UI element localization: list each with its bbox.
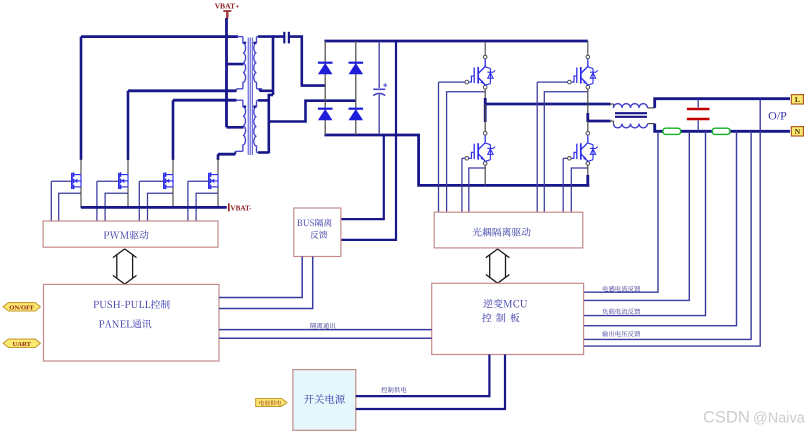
wire bridge left column	[324, 41, 326, 135]
block 开关电源	[293, 370, 356, 431]
port 电池供电	[256, 399, 287, 407]
wire controller to BUS feedback 2	[219, 257, 313, 309]
wire bridge right column	[355, 41, 357, 135]
wire cap to bridge AC1	[289, 37, 325, 86]
wire output L line	[655, 99, 790, 108]
label 电感电流反馈	[603, 286, 640, 292]
wire M2 gate	[97, 181, 119, 221]
wire Q3 collector	[484, 104, 486, 131]
transformer core	[248, 38, 252, 156]
wire M3 source sense	[148, 193, 174, 221]
wire Q3 gate	[462, 158, 465, 212]
port N terminal	[791, 127, 803, 136]
wire M2 source sense	[105, 193, 128, 221]
wire T1 secondary tap vertical	[269, 35, 273, 95]
capacitor bus C2	[373, 41, 387, 135]
diode D3	[318, 109, 333, 121]
block 逆变MCU控制板	[432, 283, 584, 354]
resistor R2	[712, 128, 730, 134]
resistor R1	[663, 128, 681, 134]
transformer T2	[236, 100, 262, 152]
wire feedback 4	[584, 131, 737, 325]
wire Q4 collector	[587, 121, 589, 131]
label 隔离通讯	[311, 323, 336, 329]
label 控制供电	[381, 387, 406, 393]
wire right leg output rail	[588, 120, 611, 123]
wire T1 secondary bottom	[260, 89, 274, 91]
svg-text:ON/OFF: ON/OFF	[9, 304, 34, 311]
igbt Q3	[465, 131, 495, 165]
mosfet M2	[119, 172, 128, 189]
wire feedback 1	[584, 131, 658, 292]
watermark	[703, 409, 805, 427]
wire M4 source	[217, 187, 219, 208]
diode D4	[349, 109, 364, 121]
power VBAT- label	[229, 203, 252, 212]
wire controller to BUS feedback 1	[219, 257, 302, 298]
wire inductor L2 out	[648, 123, 655, 125]
capacitor output C3	[687, 99, 710, 132]
svg-text:O/P: O/P	[768, 109, 787, 123]
wire M1 source	[80, 187, 82, 208]
diode D2	[349, 63, 364, 75]
wire Q1 gate	[439, 82, 466, 212]
wire Q4 gate	[563, 158, 567, 212]
port UART	[3, 339, 40, 348]
igbt Q1	[465, 55, 495, 89]
wire M1 source sense	[59, 193, 81, 221]
power VBAT+ label	[215, 2, 240, 19]
wire M4 drain riser	[217, 154, 220, 174]
label O/P	[768, 109, 787, 123]
wire right rail to inductor	[611, 121, 614, 124]
wire M1 drain to T1 primary top	[81, 35, 238, 38]
wire M3 source	[172, 187, 174, 208]
wire VBAT+ vertical to center taps	[225, 18, 228, 127]
wire VBAT- rail	[81, 206, 227, 209]
wire 控制供电	[356, 355, 490, 397]
block PUSH-PULL控制 PANEL通讯	[44, 284, 220, 361]
wire M1 drain riser	[80, 37, 83, 175]
wire Q1 emitter sense	[447, 92, 486, 212]
wire 隔离通讯 2	[219, 337, 432, 339]
wire output N line	[655, 124, 790, 132]
svg-text:VBAT-: VBAT-	[230, 204, 252, 212]
wire feedback 3	[584, 131, 706, 315]
igbt Q4	[568, 131, 598, 165]
wire M2 source	[127, 187, 129, 208]
wire M1 gate	[51, 181, 72, 221]
igbt Q2	[568, 55, 598, 89]
wire inductor L1 out	[648, 107, 655, 109]
wire Q3 emitter to bottom rail	[484, 165, 486, 185]
svg-text:CSDN: CSDN	[703, 409, 750, 427]
block 光耦隔离驱动	[434, 212, 583, 248]
wire T2 secondary top	[258, 99, 269, 102]
capacitor series C1	[284, 32, 289, 44]
svg-text:VBAT+: VBAT+	[215, 2, 240, 11]
svg-text:L: L	[795, 95, 800, 104]
wire Q2 collector	[587, 41, 589, 55]
port ON/OFF	[3, 303, 40, 312]
wire bridge top rail	[324, 40, 587, 43]
wire bridge bottom rail	[324, 135, 589, 185]
wire M2 drain to T1 primary bottom	[128, 89, 237, 91]
svg-text:N: N	[795, 127, 801, 136]
wire 隔离通讯 1	[219, 329, 432, 331]
wire Q2 emitter to mid rail	[587, 89, 589, 122]
wire T1 center tap	[227, 63, 244, 66]
wire feedback 5	[584, 131, 752, 339]
svg-text:UART: UART	[12, 341, 31, 348]
label 负载电流反馈	[602, 308, 640, 314]
wire T2 secondary bottom	[258, 151, 269, 154]
svg-text:@Naiva: @Naiva	[753, 411, 805, 427]
port L terminal	[791, 95, 803, 104]
arrow driver to MCU	[486, 249, 510, 283]
wire M3 gate	[139, 181, 164, 221]
inductor core bars	[615, 113, 647, 117]
wire Q1 emitter to mid rail	[484, 89, 486, 122]
wire Q2 gate	[537, 82, 567, 212]
wire Q1 collector	[484, 41, 486, 55]
wire BUS- sense	[341, 135, 384, 219]
arrow PWM to controller	[113, 249, 137, 284]
inductor L2	[614, 124, 648, 128]
wire left rail to inductor	[611, 104, 614, 108]
wire T2 secondary vertical	[267, 94, 270, 154]
wire M4 gate	[188, 181, 209, 221]
wire Q4 emitter to bottom rail	[587, 165, 589, 186]
wire Q3 emitter sense	[469, 168, 485, 212]
wire T2 center tap	[227, 126, 244, 129]
transformer T1	[237, 37, 263, 89]
wire T1 secondary top to cap	[258, 35, 284, 38]
block PWM驱动	[43, 221, 218, 247]
wire secondary to bridge AC2	[269, 101, 356, 122]
label 输出电压反馈	[602, 331, 640, 337]
wire feedback 2	[584, 131, 690, 300]
wire power supply 2	[356, 355, 505, 410]
diode D1	[318, 63, 333, 75]
wire Q4 emitter sense	[571, 168, 588, 212]
wire M4 source sense	[196, 193, 218, 221]
mosfet M1	[72, 172, 81, 189]
wire Q2 emitter sense	[544, 92, 588, 212]
wire M2 drain riser	[127, 91, 130, 175]
wire left leg output rail	[485, 103, 610, 106]
wire M3 drain to T2 primary top	[173, 99, 237, 102]
mosfet M3	[164, 172, 173, 189]
inductor L1	[614, 104, 648, 108]
wire feedback 6	[584, 99, 761, 346]
wire M4 drain to T2 primary bottom	[218, 151, 235, 154]
mosfet M4	[209, 172, 218, 189]
block BUS隔离反馈	[294, 208, 341, 257]
wire BUS+ sense	[341, 41, 396, 240]
wire M3 drain riser	[172, 100, 175, 174]
